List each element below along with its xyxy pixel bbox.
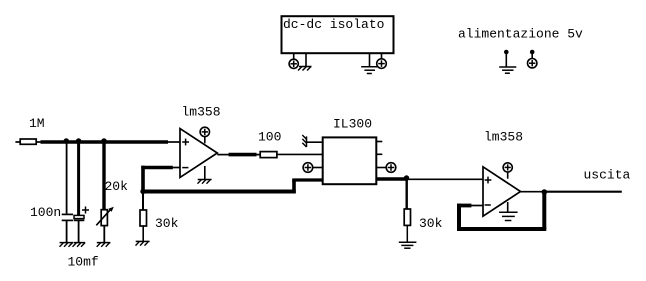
wire IL300 pin1 stub [307,141,323,143]
optocoupler U2 IL300 body [323,137,377,184]
wire U4 feedback bottom (thick) [457,227,546,231]
chassis ground below U1 [198,180,212,184]
svg-text:IL300: IL300 [333,117,372,132]
IL300 pin3 power terminal (circle-plus) left [303,163,323,173]
alimentazione +5V terminal dot [530,50,535,55]
wire feedback to IL300 (thick horizontal) [143,190,296,194]
op-amp U4 power terminal (circle-plus) [503,163,512,179]
wire C1 stem [66,142,68,214]
wire U4 output lead [521,191,543,193]
node junction C2 [76,138,81,143]
op-amp U4 - input sign [485,204,491,206]
svg-text:lm358: lm358 [182,105,221,120]
svg-text:1M: 1M [29,116,45,131]
wire to op-amp U1 + input [168,141,180,143]
chassis ground below C1 [60,243,74,247]
wire pot to ground [103,226,105,242]
wire R3 stem [142,192,144,211]
potentiometer R2 20k body [101,210,107,226]
wire R1 to node [36,141,40,143]
node junction output [542,189,548,195]
resistor R5 30k [404,209,410,225]
wire U4 feedback left vertical (thick) [457,204,461,229]
resistor R3 30k [140,210,147,226]
wire C2 to ground [78,220,80,242]
wire output uscita [546,191,622,193]
chassis ground at IL300 pin1 (rotated) [302,135,306,147]
potentiometer R2 arrow [96,207,114,226]
svg-text:lm358: lm358 [484,130,523,145]
capacitor C1 100n [62,214,73,220]
dc-dc converter box U3 [282,16,394,53]
wire IL300 right pin stub top [376,141,382,143]
chassis ground below C2 [73,243,86,247]
op-amp U1 power terminal (circle-plus) [200,127,209,143]
svg-text:alimentazione 5v: alimentazione 5v [458,27,583,42]
wire feedback vertical (thick) [141,166,145,192]
wire to op-amp U4 + input [407,178,484,180]
wire C2 stem (thick) [77,142,80,215]
node junction C1 [64,138,69,143]
wire R4 to IL300 pin2 [277,153,323,155]
wire main input net (thick) [41,140,169,144]
svg-text:100n: 100n [30,205,61,220]
op-amp U4 ground stem [507,202,509,212]
op-amp U1 ground stem [204,166,206,179]
wire into IL300 pin4 (thick) [292,178,323,181]
dc-dc +5V terminal (circle-plus) left [289,59,298,68]
svg-text:10mf: 10mf [68,255,99,270]
wire IL300 right pin stub 2 [376,153,382,155]
op-amp U4 triangle [483,167,521,216]
svg-text:uscita: uscita [584,168,631,183]
svg-text:100: 100 [258,130,281,145]
wire U1 - input thin [172,167,180,169]
wire U1 output to R4 (thick) [229,153,257,157]
dc-dc earth ground right [361,67,378,74]
alimentazione ground terminal dot [504,50,509,55]
op-amp U1 + input sign [182,139,189,146]
op-amp U1 triangle [180,129,217,178]
wire R3 to ground [142,226,144,241]
wire R4 left lead [257,154,261,156]
resistor R1 1M [20,139,36,144]
capacitor C2 10mf [74,215,85,220]
wire input left lead [15,141,20,143]
op-amp U1 - input sign [182,167,188,169]
wire IL300 output (thick) [376,177,406,180]
wire U4 feedback right vertical (thick) [542,192,546,229]
svg-text:30k: 30k [155,216,179,231]
dc-dc chassis ground left [298,67,312,71]
wire R5 to ground [406,225,408,241]
wire R5 stem [406,179,408,209]
node junction R5 [404,175,409,180]
chassis ground below pot [97,243,111,247]
dc-dc pin stub right gnd [369,54,371,67]
alimentazione +5V stem [531,52,533,59]
wire U4 - input thin [470,205,483,207]
capacitor C2 10mf polarity + [82,207,89,214]
dc-dc pin stub left gnd [305,54,307,67]
wire feedback riser (thick vertical) [292,180,296,193]
svg-text:dc-dc isolato: dc-dc isolato [283,17,384,32]
alimentazione ground stem [505,52,507,67]
node junction pot [101,138,106,143]
alimentazione earth ground [499,67,516,73]
alimentazione +5V terminal (circle-plus) [528,59,537,68]
chassis ground below R3 [136,241,150,245]
node junction R3 [140,189,145,194]
dc-dc pin stub right + [381,54,383,59]
wire pot stem (thick) [102,142,105,210]
earth ground below U4 [499,212,517,220]
wire U4 feedback top (thick) [457,204,471,208]
dc-dc pin stub left + [293,54,295,60]
resistor R4 100 [260,152,277,158]
svg-text:20k: 20k [105,179,129,194]
wire U1 - feedback horizontal (thick) [141,166,173,170]
wire U1 output lead [217,154,229,156]
wire C1 to ground [66,220,68,242]
op-amp U4 + input sign [485,177,492,184]
dc-dc +5V terminal (circle-plus) right [377,59,387,69]
IL300 power terminal (circle-plus) right [376,163,396,173]
earth ground below R5 [399,242,417,248]
svg-text:30k: 30k [419,216,443,231]
